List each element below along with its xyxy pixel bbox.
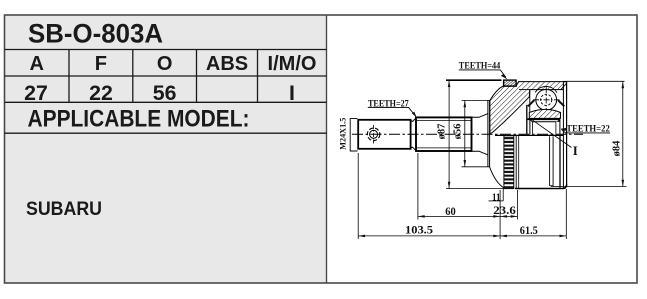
second junction line (bottom half) bbox=[518, 136, 520, 189]
svg-text:60: 60 bbox=[445, 206, 456, 218]
ball circle bbox=[536, 89, 557, 110]
extension line x566 housing right bbox=[565, 189, 567, 239]
svg-text:56: 56 bbox=[153, 81, 177, 105]
thread circle outer bbox=[367, 128, 380, 141]
TEETH=27 underline and leader bbox=[368, 108, 416, 117]
svg-text:ABS: ABS bbox=[206, 53, 248, 75]
svg-text:I/M/O: I/M/O bbox=[268, 53, 317, 75]
extension line at stub left x358 bbox=[357, 153, 359, 239]
TEETH=44 underline and leader bbox=[459, 70, 506, 77]
svg-text:61.5: 61.5 bbox=[520, 225, 538, 237]
housing face edge (bottom half) bbox=[559, 136, 561, 188]
svg-text:23.6: 23.6 bbox=[493, 205, 516, 217]
housing right opening chamfer lines bbox=[562, 90, 564, 189]
svg-text:ø87: ø87 bbox=[437, 124, 448, 140]
dia 87 top extension line bbox=[446, 79, 502, 81]
pocket bottom shelf line bbox=[519, 89, 530, 91]
bore left outer wall bbox=[526, 105, 528, 134]
TEETH=22 underline and leader bbox=[561, 129, 610, 133]
spline minor diameter line top bbox=[416, 120, 472, 122]
bore inner line bbox=[532, 121, 556, 123]
table column divider 1 bbox=[68, 50, 70, 103]
bore right wall bbox=[559, 119, 561, 134]
svg-text:SB-O-803A: SB-O-803A bbox=[28, 19, 163, 49]
ball pocket left wall bbox=[529, 90, 531, 113]
svg-text:I: I bbox=[573, 143, 578, 158]
svg-text:ø56: ø56 bbox=[453, 124, 464, 140]
bell wall section hatch (top half) bbox=[490, 82, 564, 134]
top right chamfer bbox=[561, 83, 567, 89]
top edge right segment bbox=[563, 81, 567, 83]
table column divider 2 bbox=[132, 50, 134, 103]
cage window right bbox=[557, 99, 565, 107]
ball crosshair horizontal bbox=[533, 99, 560, 101]
ball track arc above ball bbox=[535, 86, 557, 92]
threaded stub body bbox=[358, 120, 410, 149]
bell exterior curve bottom half bbox=[490, 167, 504, 188]
TEETH=27 leader arrowhead bbox=[412, 112, 417, 118]
housing external silhouette top line (below centerline) bbox=[495, 134, 563, 136]
centerline of shaft axis bbox=[352, 133, 583, 135]
left panel gray background bbox=[5, 15, 327, 283]
svg-text:F: F bbox=[95, 53, 107, 75]
svg-text:I: I bbox=[289, 81, 295, 105]
thread circle vertical centerline bbox=[373, 125, 375, 144]
table row line under APPLICABLE MODEL bbox=[5, 132, 327, 134]
TEETH=44 leader arrowhead bbox=[501, 74, 508, 79]
dia 87 bottom extension line bbox=[446, 188, 504, 190]
dim 11 extension line bbox=[502, 189, 504, 201]
table row line under header bbox=[5, 75, 327, 77]
svg-text:103.5: 103.5 bbox=[405, 223, 433, 237]
M24X1.5 extension bracket bbox=[350, 119, 357, 151]
svg-text:27: 27 bbox=[24, 81, 48, 105]
ABS ring cross-section (TEETH=44) bbox=[504, 80, 516, 86]
I label leader bbox=[531, 119, 572, 147]
dim 11 line bbox=[489, 200, 504, 202]
snap ring groove lines (bottom half) bbox=[549, 136, 551, 186]
thread runout between stub and spline bbox=[411, 118, 416, 151]
dia 56 bottom extension line bbox=[462, 166, 490, 168]
svg-text:O: O bbox=[157, 53, 173, 75]
bore left wall bbox=[529, 119, 531, 134]
extension line x500 bbox=[499, 190, 501, 239]
dia 84 bottom extension line bbox=[551, 186, 627, 188]
panel divider bbox=[326, 15, 328, 283]
ball inner circle bbox=[541, 94, 552, 105]
svg-text:M24X1.5: M24X1.5 bbox=[339, 118, 348, 150]
svg-text:ø84: ø84 bbox=[612, 140, 623, 157]
shaft neck to housing bbox=[472, 114, 488, 155]
extension line x517.5 bbox=[517, 190, 519, 220]
extension line at spline start x418 bbox=[417, 153, 419, 220]
housing back face (double line, boot seat dia 56) bbox=[487, 100, 489, 167]
spline minor diameter line bottom bbox=[416, 147, 472, 149]
dia 87 dimension line bbox=[448, 80, 450, 188]
cage window left bbox=[527, 99, 535, 107]
bell to body junction line (bottom half) bbox=[515, 136, 517, 189]
groove bottom connector bbox=[550, 185, 554, 187]
housing bottom edge with rounded corner bbox=[515, 185, 567, 189]
svg-text:22: 22 bbox=[89, 81, 113, 105]
ball crosshair vertical bbox=[545, 87, 547, 113]
table row line under title bbox=[5, 49, 327, 51]
dim 60 and 23.6 shared dimension line bbox=[418, 215, 518, 217]
dim 103.5 and 61.5 shared dimension line bbox=[358, 235, 566, 237]
bore left spline line bbox=[531, 122, 533, 134]
svg-text:SUBARU: SUBARU bbox=[26, 198, 102, 220]
table column divider 4 bbox=[257, 50, 259, 103]
table column divider 3 bbox=[196, 50, 198, 103]
bore inner corner left bbox=[530, 119, 532, 122]
bore inner corner right bbox=[556, 119, 560, 122]
dia 84 dimension line bbox=[622, 81, 624, 186]
table row line under values bbox=[5, 101, 327, 103]
TEETH=22 leader arrowhead bbox=[561, 128, 567, 131]
inner race dome with hatch bbox=[529, 109, 560, 118]
bore right spline line bbox=[555, 122, 557, 134]
dia 84 top extension line bbox=[567, 80, 625, 82]
svg-text:11: 11 bbox=[492, 192, 501, 203]
spline shaft section (TEETH=27) bbox=[416, 117, 472, 151]
dia 56 dimension line bbox=[464, 100, 466, 166]
svg-text:A: A bbox=[29, 53, 43, 75]
svg-text:APPLICABLE MODEL:: APPLICABLE MODEL: bbox=[28, 106, 250, 133]
ABS ring teeth external view (bottom half) bbox=[504, 136, 514, 189]
thread circle inner bbox=[370, 130, 378, 138]
dia 56 top extension line bbox=[462, 99, 490, 101]
bore top line (top half) bbox=[528, 118, 561, 120]
